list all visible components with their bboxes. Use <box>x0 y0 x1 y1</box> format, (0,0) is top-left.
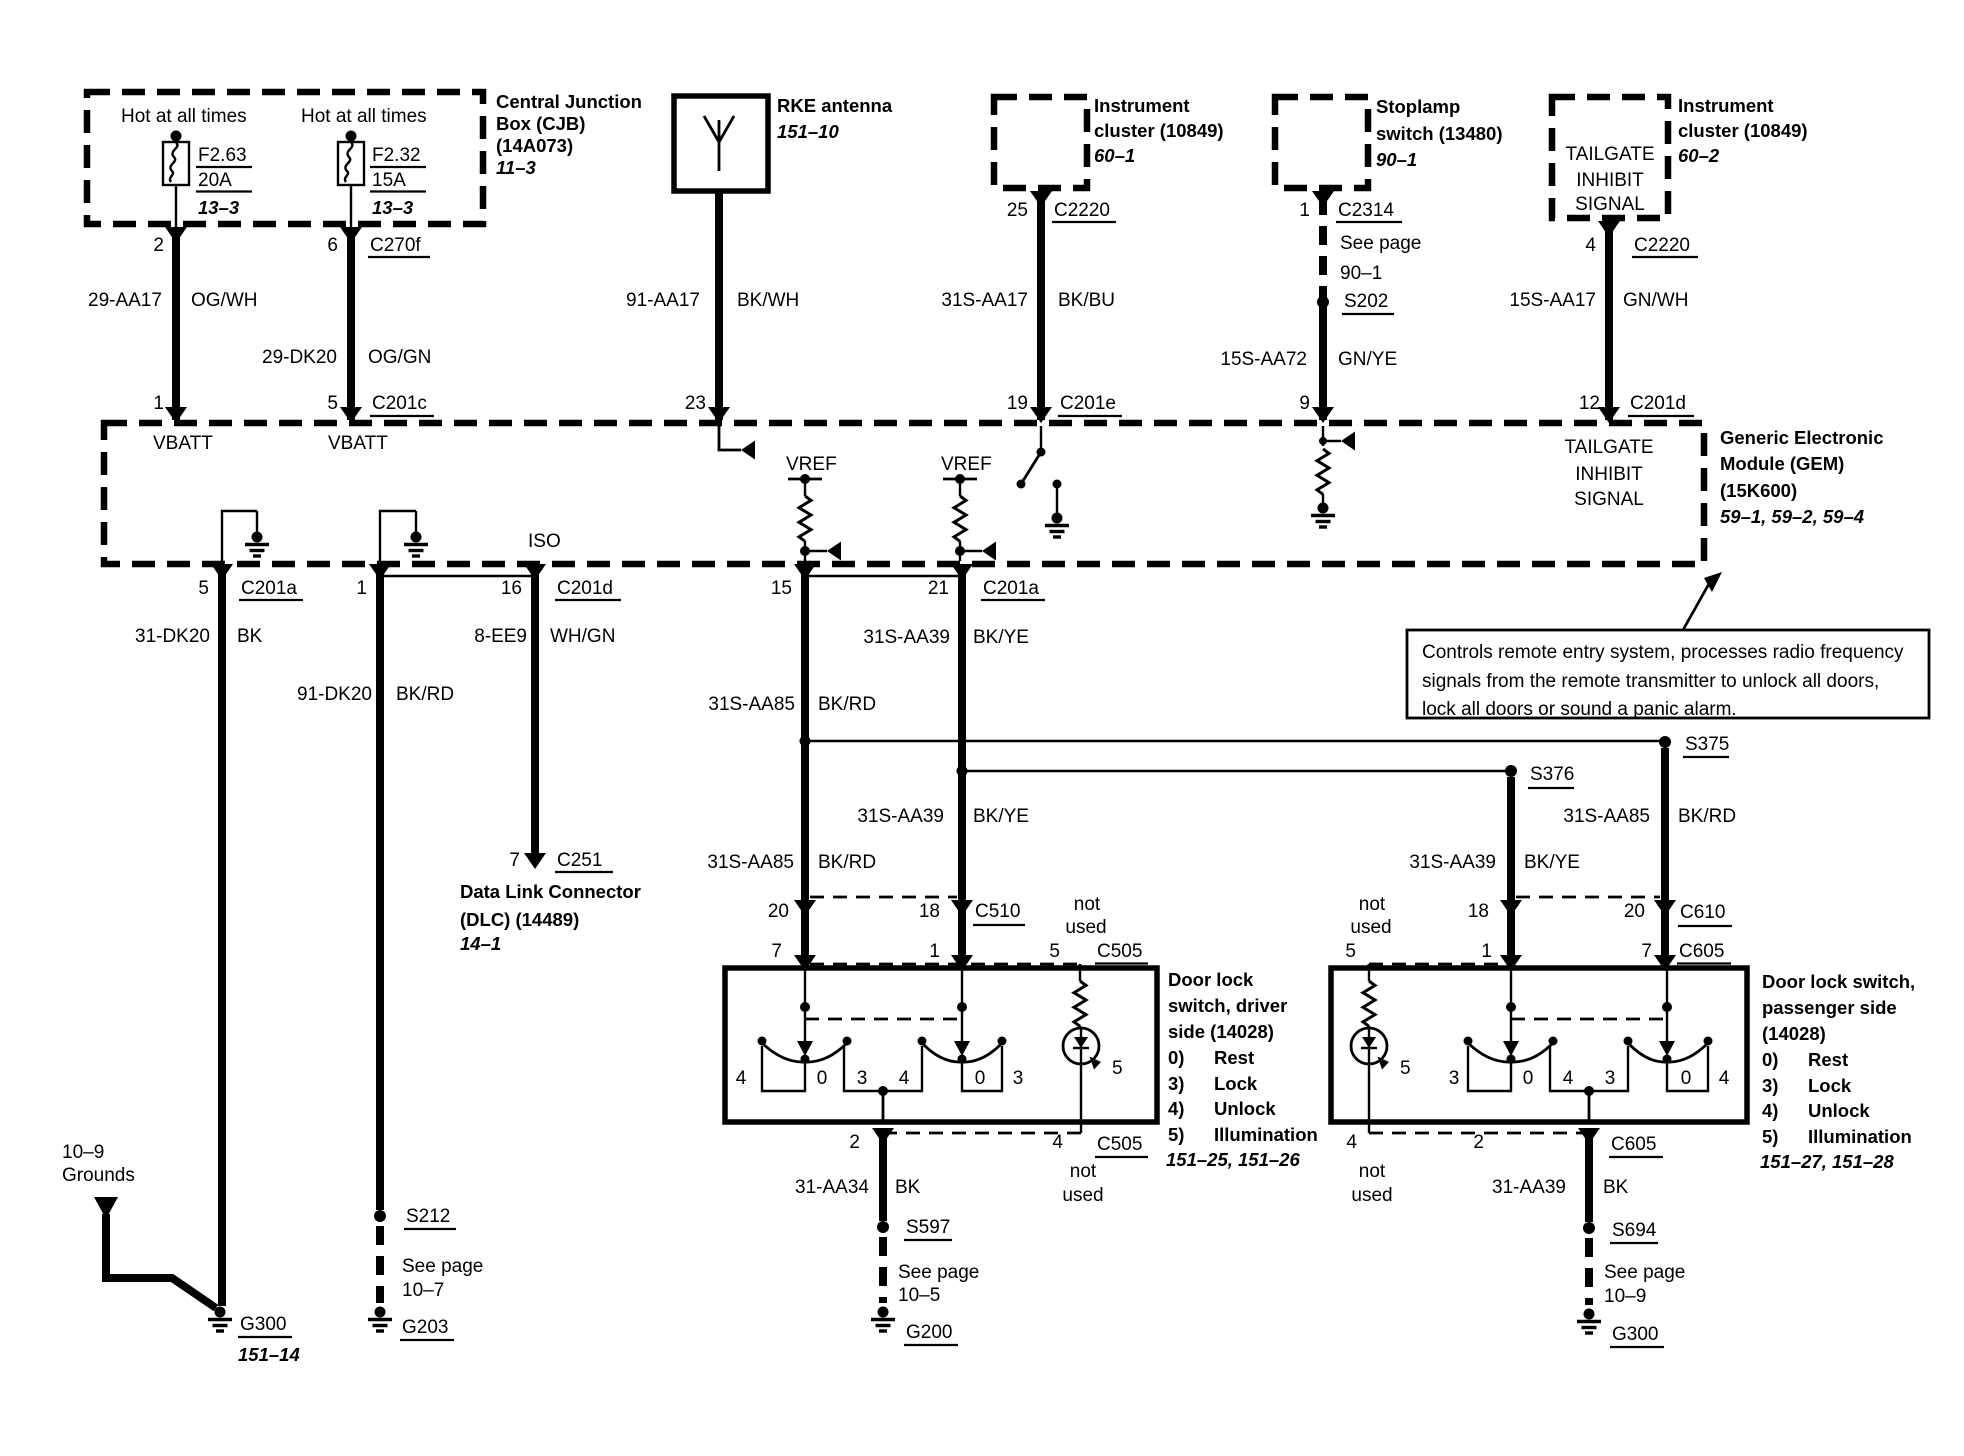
passenger lamp return to pin 4 (not used) <box>1346 1122 1585 1206</box>
svg-text:31S-AA85: 31S-AA85 <box>707 852 794 873</box>
svg-text:Door lock switch,: Door lock switch, <box>1762 971 1915 992</box>
pin 25 connector C2220 <box>1007 200 1116 222</box>
ground G300 (passenger) <box>1577 1309 1664 1348</box>
svg-text:side (14028): side (14028) <box>1168 1021 1274 1042</box>
pin 5 connector C201c <box>327 393 434 416</box>
svg-text:ISO: ISO <box>528 531 561 552</box>
svg-text:20: 20 <box>1624 901 1645 922</box>
svg-text:59–1, 59–2, 59–4: 59–1, 59–2, 59–4 <box>1720 506 1864 527</box>
svg-text:BK/RD: BK/RD <box>818 694 876 715</box>
svg-text:29-DK20: 29-DK20 <box>262 347 337 368</box>
svg-text:1: 1 <box>929 941 940 962</box>
svg-text:Lock: Lock <box>1808 1075 1852 1096</box>
svg-text:4: 4 <box>736 1068 747 1089</box>
svg-text:BK/YE: BK/YE <box>1524 852 1580 873</box>
svg-text:5: 5 <box>327 393 338 414</box>
svg-text:Door lock: Door lock <box>1168 969 1254 990</box>
svg-text:16: 16 <box>501 578 522 599</box>
svg-text:25: 25 <box>1007 200 1028 221</box>
svg-text:G200: G200 <box>906 1322 952 1343</box>
svg-text:5): 5) <box>1168 1124 1184 1145</box>
dashed link between switch poles (driver) <box>805 1018 962 1021</box>
svg-text:GN/YE: GN/YE <box>1338 349 1397 370</box>
svg-text:5: 5 <box>198 578 209 599</box>
svg-text:31S-AA85: 31S-AA85 <box>1563 806 1650 827</box>
svg-text:11–3: 11–3 <box>496 157 536 178</box>
svg-text:4: 4 <box>1719 1068 1730 1089</box>
svg-text:F2.63: F2.63 <box>198 145 247 166</box>
svg-text:VREF: VREF <box>786 454 837 475</box>
svg-text:RKE antenna: RKE antenna <box>777 95 893 116</box>
svg-text:Rest: Rest <box>1808 1049 1848 1070</box>
svg-text:S694: S694 <box>1612 1220 1657 1241</box>
svg-text:C2220: C2220 <box>1634 235 1690 256</box>
svg-text:151–10: 151–10 <box>777 121 839 142</box>
pin 2 connector C605 <box>1609 1134 1663 1157</box>
svg-text:S202: S202 <box>1344 291 1388 312</box>
svg-text:5): 5) <box>1762 1126 1778 1147</box>
svg-text:Unlock: Unlock <box>1214 1098 1276 1119</box>
svg-text:60–2: 60–2 <box>1678 145 1720 166</box>
svg-text:7: 7 <box>509 850 520 871</box>
svg-text:90–1: 90–1 <box>1376 149 1417 170</box>
label 10-9 Grounds <box>62 1142 135 1186</box>
GEM internal: VREF pull-up resistor (pin 15) <box>786 454 841 561</box>
svg-text:31S-AA39: 31S-AA39 <box>1409 852 1496 873</box>
splice S597 <box>877 1217 979 1306</box>
svg-text:VBATT: VBATT <box>153 433 213 454</box>
generic electronic module (GEM) (15K600) 59-1, 59-2, 59-4 <box>104 423 1883 564</box>
svg-text:(14028): (14028) <box>1762 1023 1826 1044</box>
GEM internal: VREF pull-up resistor (pin 21) <box>941 454 996 561</box>
svg-text:See page: See page <box>1604 1262 1685 1283</box>
svg-text:10–9: 10–9 <box>62 1142 104 1163</box>
svg-text:switch, driver: switch, driver <box>1168 995 1287 1016</box>
svg-text:BK/RD: BK/RD <box>818 852 876 873</box>
GEM internal: pull-down resistor to ground on pin 9 <box>1317 426 1355 505</box>
svg-text:3): 3) <box>1762 1075 1778 1096</box>
wire (S694 to G300, dashed off-page) <box>1585 1238 1593 1305</box>
svg-text:Instrument: Instrument <box>1678 95 1774 116</box>
driver switch contact set 1 (positions 4-0-3) <box>736 1037 852 1092</box>
wire 29-AA17 OG/WH (fuse F2.63 to GEM pin 1) <box>88 227 258 423</box>
svg-text:C505: C505 <box>1097 1134 1142 1155</box>
svg-text:7: 7 <box>771 941 782 962</box>
svg-text:used: used <box>1350 917 1391 938</box>
svg-text:15A: 15A <box>372 170 406 191</box>
pin 19 connector C201e <box>1007 393 1122 416</box>
svg-text:0: 0 <box>975 1068 986 1089</box>
stoplamp switch (13480) 90-1 <box>1275 96 1502 188</box>
svg-text:used: used <box>1351 1185 1392 1206</box>
svg-text:C251: C251 <box>557 850 602 871</box>
svg-text:Grounds: Grounds <box>62 1165 135 1186</box>
svg-text:not: not <box>1074 894 1101 915</box>
svg-text:used: used <box>1062 1185 1103 1206</box>
junction on wire 31S-AA85 (to S375 branch) <box>800 736 811 747</box>
GEM internal ground (pin 9 resistor) <box>1311 503 1335 528</box>
svg-text:3: 3 <box>1013 1068 1024 1089</box>
svg-text:4): 4) <box>1762 1100 1778 1121</box>
wire 31-DK20 BK (GEM pin 5 to ground G300) <box>135 564 263 1306</box>
svg-text:10–7: 10–7 <box>402 1280 444 1301</box>
svg-text:C201e: C201e <box>1060 393 1116 414</box>
GEM internal ground (pin 19 switch) <box>1045 513 1069 538</box>
wire from other grounds (10-9) to G300 <box>94 1197 216 1308</box>
svg-text:C201a: C201a <box>241 578 297 599</box>
svg-text:31S-AA17: 31S-AA17 <box>941 290 1028 311</box>
svg-text:91-AA17: 91-AA17 <box>626 290 700 311</box>
svg-text:C2314: C2314 <box>1338 200 1394 221</box>
label: not used (driver pin 5 illum feed) <box>1065 894 1106 938</box>
passenger illumination lamp resistor (pin 5) <box>1363 964 1375 1029</box>
passenger switch contact set 1 (positions 3-0-4) <box>1449 1037 1558 1092</box>
svg-text:GN/WH: GN/WH <box>1623 290 1688 311</box>
svg-text:Instrument: Instrument <box>1094 95 1190 116</box>
passenger switch common bucket (4-3) with output junction <box>1550 1046 1628 1096</box>
svg-text:3: 3 <box>857 1068 868 1089</box>
svg-text:31S-AA85: 31S-AA85 <box>708 694 795 715</box>
dashed link between switch poles (passenger) <box>1511 1018 1667 1021</box>
svg-text:0): 0) <box>1168 1047 1184 1068</box>
svg-text:TAILGATE: TAILGATE <box>1564 437 1653 458</box>
svg-text:Stoplamp: Stoplamp <box>1376 96 1460 117</box>
svg-text:Data Link Connector: Data Link Connector <box>460 881 641 902</box>
svg-text:See page: See page <box>1340 233 1421 254</box>
wire 31-AA34 BK (driver switch pin 2 to ground G200) <box>795 1091 921 1221</box>
svg-text:C605: C605 <box>1611 1134 1656 1155</box>
svg-text:S212: S212 <box>406 1206 450 1227</box>
svg-text:(14A073): (14A073) <box>496 135 573 156</box>
svg-text:C201c: C201c <box>372 393 427 414</box>
svg-text:C610: C610 <box>1680 902 1725 923</box>
svg-text:SIGNAL: SIGNAL <box>1574 489 1644 510</box>
svg-text:6: 6 <box>327 235 338 256</box>
svg-text:10–9: 10–9 <box>1604 1286 1646 1307</box>
svg-text:31-DK20: 31-DK20 <box>135 626 210 647</box>
wire 91-AA17 BK/WH (RKE antenna to GEM pin 23) <box>626 191 799 423</box>
svg-text:See page: See page <box>898 1262 979 1283</box>
svg-text:Controls remote entry system,: Controls remote entry system, processes … <box>1422 642 1904 663</box>
svg-text:VREF: VREF <box>941 454 992 475</box>
driver switch: lock wire (pin 1) into pole <box>954 968 970 1056</box>
svg-text:13–3: 13–3 <box>198 197 240 218</box>
passenger switch contact set 2 (positions 3-0-4) <box>1624 1037 1730 1092</box>
svg-text:BK/WH: BK/WH <box>737 290 799 311</box>
svg-text:C505: C505 <box>1097 941 1142 962</box>
RKE antenna 151-10 <box>674 95 893 191</box>
svg-text:5: 5 <box>1400 1058 1411 1079</box>
svg-text:BK/YE: BK/YE <box>973 627 1029 648</box>
splice S376 <box>1505 764 1574 788</box>
passenger illumination lamp (5) <box>1351 1028 1411 1122</box>
svg-text:(DLC) (14489): (DLC) (14489) <box>460 909 579 930</box>
wire (S597 to G200, dashed off-page) <box>879 1237 887 1303</box>
svg-text:C270f: C270f <box>370 235 421 256</box>
svg-text:5: 5 <box>1049 941 1060 962</box>
fuse F2.32 15A 13-3 <box>338 131 426 228</box>
svg-text:4: 4 <box>1346 1132 1357 1153</box>
svg-text:used: used <box>1065 917 1106 938</box>
svg-text:not: not <box>1359 894 1386 915</box>
svg-text:151–27, 151–28: 151–27, 151–28 <box>1760 1151 1894 1172</box>
svg-text:BK/RD: BK/RD <box>396 684 454 705</box>
svg-text:See page: See page <box>402 1256 483 1277</box>
svg-text:2: 2 <box>1473 1132 1484 1153</box>
svg-text:12: 12 <box>1579 393 1600 414</box>
svg-text:0: 0 <box>1681 1068 1692 1089</box>
GEM internal: ground hook from pin 1 <box>380 511 416 561</box>
svg-text:Hot at all times: Hot at all times <box>121 106 247 127</box>
svg-text:4): 4) <box>1168 1098 1184 1119</box>
svg-text:90–1: 90–1 <box>1340 263 1382 284</box>
ground G200 <box>871 1307 958 1346</box>
label: not used (passenger pin 5 illum feed) <box>1345 894 1391 962</box>
svg-text:C2220: C2220 <box>1054 200 1110 221</box>
svg-text:Box (CJB): Box (CJB) <box>496 113 585 134</box>
svg-text:(15K600): (15K600) <box>1720 480 1797 501</box>
svg-text:Illumination: Illumination <box>1214 1124 1318 1145</box>
svg-text:BK/YE: BK/YE <box>973 806 1029 827</box>
wire 31S-AA17 BK/BU (cluster pin 25 to GEM pin 19) <box>941 191 1115 423</box>
svg-text:31-AA39: 31-AA39 <box>1492 1177 1566 1198</box>
svg-text:9: 9 <box>1299 393 1310 414</box>
pin 21 connector C201a (GEM bottom) <box>928 578 1045 600</box>
splice S212 <box>374 1206 483 1301</box>
svg-text:1: 1 <box>356 578 367 599</box>
wire 91-DK20 BK/RD (GEM pin 1 to splice S212 / ground G203) <box>297 564 454 1210</box>
svg-text:8-EE9: 8-EE9 <box>474 626 527 647</box>
svg-text:BK: BK <box>1603 1177 1629 1198</box>
splice S694 <box>1583 1220 1685 1307</box>
driver illumination lamp resistor (pin 5) <box>1074 964 1086 1029</box>
svg-text:C201a: C201a <box>983 578 1039 599</box>
svg-text:1: 1 <box>153 393 164 414</box>
svg-text:151–14: 151–14 <box>238 1344 300 1365</box>
svg-text:Generic Electronic: Generic Electronic <box>1720 427 1883 448</box>
svg-text:Illumination: Illumination <box>1808 1126 1912 1147</box>
data link connector (DLC) (14489) 14-1 <box>460 881 641 954</box>
connector bracket (pins 1/16) <box>380 575 535 577</box>
driver switch: unlock wire (pin 7) into pole <box>797 968 813 1056</box>
svg-text:C510: C510 <box>975 901 1020 922</box>
pin 1 connector C2314 <box>1299 200 1421 284</box>
svg-text:Hot at all times: Hot at all times <box>301 106 427 127</box>
svg-text:BK/BU: BK/BU <box>1058 290 1115 311</box>
svg-text:BK/RD: BK/RD <box>1678 806 1736 827</box>
connector row C605 (passenger) <box>1369 941 1731 970</box>
svg-text:cluster (10849): cluster (10849) <box>1678 120 1808 141</box>
svg-text:23: 23 <box>685 393 706 414</box>
svg-text:not: not <box>1359 1161 1386 1182</box>
svg-text:31S-AA39: 31S-AA39 <box>863 627 950 648</box>
svg-text:1: 1 <box>1299 200 1310 221</box>
driver illumination lamp (5) <box>1063 1028 1123 1122</box>
svg-text:not: not <box>1070 1161 1097 1182</box>
connector bracket (pins 15/21) <box>805 575 960 577</box>
svg-text:Lock: Lock <box>1214 1073 1258 1094</box>
svg-text:14–1: 14–1 <box>460 933 501 954</box>
svg-text:4: 4 <box>1052 1132 1063 1153</box>
door lock switch, driver side (14028) <box>725 968 1318 1170</box>
pin 12 connector C201d <box>1579 393 1694 416</box>
passenger switch: lock wire (pin 1) into pole <box>1503 968 1519 1056</box>
svg-text:31S-AA39: 31S-AA39 <box>857 806 944 827</box>
connector row C505 (driver) <box>771 941 1148 970</box>
wire 15S-AA17 GN/WH (cluster pin 4 to GEM pin 12) <box>1509 221 1688 423</box>
wire branch to splice S375 <box>805 740 1665 742</box>
node TAILGATE INHIBIT SIGNAL (GEM internal) <box>1564 437 1653 510</box>
pin 5 connector C201a (GEM bottom) <box>198 578 303 600</box>
GEM internal: switch to ground on pin 19 input <box>1017 426 1062 516</box>
svg-text:0): 0) <box>1762 1049 1778 1070</box>
wire 31S-AA85 BK/RD (S375 to passenger door lock switch pin 7) <box>1563 748 1736 971</box>
svg-text:15: 15 <box>771 578 792 599</box>
passenger switch: unlock wire (pin 7) into pole <box>1659 968 1675 1056</box>
svg-text:3): 3) <box>1168 1073 1184 1094</box>
svg-text:C201d: C201d <box>1630 393 1686 414</box>
svg-text:31-AA34: 31-AA34 <box>795 1177 869 1198</box>
svg-text:signals from the remote transm: signals from the remote transmitter to u… <box>1422 671 1879 692</box>
pin 6 connector C270f <box>327 235 430 257</box>
callout: GEM function description <box>1407 572 1929 720</box>
svg-text:cluster (10849): cluster (10849) <box>1094 120 1224 141</box>
GEM internal: antenna input stub with arrow <box>719 426 755 460</box>
svg-text:20A: 20A <box>198 170 232 191</box>
svg-text:VBATT: VBATT <box>328 433 388 454</box>
svg-text:switch (13480): switch (13480) <box>1376 123 1502 144</box>
svg-text:C605: C605 <box>1679 941 1724 962</box>
connector row C510 (driver) <box>768 897 1025 925</box>
svg-text:4: 4 <box>1563 1068 1574 1089</box>
wire 8-EE9 WH/GN (GEM pin 16 to DLC pin 7) <box>474 564 615 869</box>
svg-text:4: 4 <box>899 1068 910 1089</box>
svg-text:F2.32: F2.32 <box>372 145 421 166</box>
svg-text:21: 21 <box>928 578 949 599</box>
svg-text:S597: S597 <box>906 1217 950 1238</box>
svg-text:G300: G300 <box>240 1314 286 1335</box>
ground G203 <box>368 1307 454 1341</box>
splice S202 <box>1317 291 1394 314</box>
svg-text:BK: BK <box>895 1177 921 1198</box>
svg-text:C201d: C201d <box>557 578 613 599</box>
svg-text:0: 0 <box>1523 1068 1534 1089</box>
svg-text:lock all doors or sound a pani: lock all doors or sound a panic alarm. <box>1422 699 1737 720</box>
GEM internal ground (pin 1 hook) <box>404 532 428 557</box>
svg-text:2: 2 <box>849 1132 860 1153</box>
svg-text:29-AA17: 29-AA17 <box>88 290 162 311</box>
svg-text:2: 2 <box>153 235 164 256</box>
svg-text:4: 4 <box>1585 235 1596 256</box>
svg-text:1: 1 <box>1481 941 1492 962</box>
svg-text:G300: G300 <box>1612 1324 1658 1345</box>
svg-text:15S-AA17: 15S-AA17 <box>1509 290 1596 311</box>
svg-text:3: 3 <box>1449 1068 1460 1089</box>
ground G300 151-14 <box>208 1307 300 1366</box>
svg-text:OG/GN: OG/GN <box>368 347 431 368</box>
svg-text:INHIBIT: INHIBIT <box>1576 170 1644 191</box>
svg-text:SIGNAL: SIGNAL <box>1575 194 1645 215</box>
wire 31S-AA39 BK/YE (S376 to passenger door lock switch pin 1) <box>1409 777 1580 971</box>
svg-text:5: 5 <box>1345 941 1356 962</box>
wire 31S-AA39 BK/YE (GEM pin 21 to driver door lock switch pin 1) <box>857 564 1029 971</box>
svg-text:18: 18 <box>1468 901 1489 922</box>
door lock switch, passenger side (14028) <box>1331 968 1915 1172</box>
svg-text:OG/WH: OG/WH <box>191 290 258 311</box>
fuse F2.63 20A 13-3 <box>163 131 252 228</box>
svg-text:10–5: 10–5 <box>898 1285 940 1306</box>
instrument cluster (10849) 60-1 <box>994 95 1224 188</box>
svg-text:Central Junction: Central Junction <box>496 91 642 112</box>
driver switch common bucket (3-4) with output junction <box>844 1046 922 1096</box>
svg-text:0: 0 <box>817 1068 828 1089</box>
connector row C610 (passenger) <box>1468 897 1732 926</box>
svg-text:S375: S375 <box>1685 734 1729 755</box>
wire 29-DK20 OG/GN (fuse F2.32 to GEM pin 5) <box>262 227 431 423</box>
svg-text:BK: BK <box>237 626 263 647</box>
wire branch to splice S376 <box>962 770 1511 772</box>
svg-text:20: 20 <box>768 901 789 922</box>
svg-text:13–3: 13–3 <box>372 197 414 218</box>
svg-text:Module (GEM): Module (GEM) <box>1720 453 1844 474</box>
driver switch contact set 2 (positions 4-0-3) <box>918 1037 1024 1092</box>
svg-text:passenger side: passenger side <box>1762 997 1897 1018</box>
svg-text:5: 5 <box>1112 1058 1123 1079</box>
wire (S212 to G203, off-page) <box>376 1226 384 1303</box>
svg-text:18: 18 <box>919 901 940 922</box>
driver lamp return to pin 4 (not used) <box>883 1122 1148 1206</box>
GEM internal: ground hook from pin 5 <box>222 511 257 561</box>
svg-text:WH/GN: WH/GN <box>550 626 615 647</box>
svg-text:7: 7 <box>1641 941 1652 962</box>
svg-text:91-DK20: 91-DK20 <box>297 684 372 705</box>
svg-text:S376: S376 <box>1530 764 1574 785</box>
svg-text:Unlock: Unlock <box>1808 1100 1870 1121</box>
central junction box (CJB) (14A073) <box>87 91 642 224</box>
pin 7 connector C251 (data link connector) <box>509 850 613 872</box>
svg-text:3: 3 <box>1605 1068 1616 1089</box>
wire 31S-AA85 BK/RD (GEM pin 15 to driver door lock switch pin 7) <box>707 564 876 971</box>
svg-text:151–25, 151–26: 151–25, 151–26 <box>1166 1149 1300 1170</box>
pin 4 connector C2220 <box>1585 235 1698 257</box>
svg-text:TAILGATE: TAILGATE <box>1565 144 1654 165</box>
junction on wire 31S-AA39 (to S376 branch) <box>957 766 968 777</box>
splice S375 <box>1659 734 1729 757</box>
svg-text:19: 19 <box>1007 393 1028 414</box>
GEM internal ground (pin 5 hook) <box>245 532 269 557</box>
wire 31-AA39 BK (passenger switch pin 2 to ground G300) <box>1473 1091 1628 1222</box>
svg-text:G203: G203 <box>402 1317 448 1338</box>
instrument cluster (10849) 60-2 (tailgate inhibit signal) <box>1552 95 1808 218</box>
wire 15S-AA72 GN/YE (stoplamp switch to GEM pin 9) <box>1220 191 1397 423</box>
svg-text:Rest: Rest <box>1214 1047 1254 1068</box>
svg-text:60–1: 60–1 <box>1094 145 1135 166</box>
svg-text:15S-AA72: 15S-AA72 <box>1220 349 1307 370</box>
svg-text:INHIBIT: INHIBIT <box>1575 464 1643 485</box>
pin 16 connector C201d (GEM bottom) <box>501 578 621 600</box>
